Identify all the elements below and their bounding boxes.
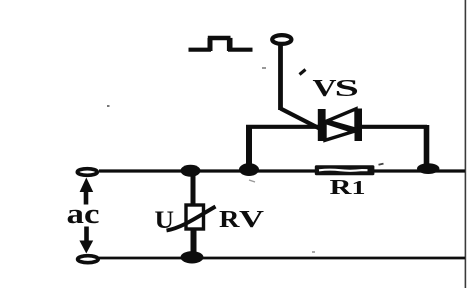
scan border right edge [465,0,467,288]
triac VS lower triangle [325,122,354,140]
node junction D4 (varistor bottom) [181,251,204,263]
triac VS left bar [318,109,326,141]
wire triac right branch vertical [424,125,430,168]
resistor R1 body [315,165,375,175]
node junction D3 (right) [417,163,439,174]
wire varistor bottom lead [191,228,197,258]
varistor RV body [186,205,204,229]
arrow down (ac) [84,227,89,242]
speck 5 [249,180,255,182]
wire triac left branch vertical [246,128,252,170]
svg-text:R: R [219,207,240,233]
triac VS right bar [355,109,363,142]
svg-text:ac: ac [67,199,100,230]
terminal (ac top) [77,169,97,176]
speck 1 [107,105,110,107]
pulse trigger symbol baseline left [189,48,212,52]
resistor R1 inner white streak [319,170,368,171]
svg-text:1: 1 [352,177,366,199]
wire top rail [99,169,465,172]
gate terminal circle [272,35,291,44]
pulse falling edge [227,38,233,51]
speck 4 [312,251,315,253]
wire bottom rail [99,257,465,260]
wire gate diagonal [281,109,321,130]
wire triac branch horizontal [246,125,427,129]
speck 2 [262,67,266,69]
node junction D1 (varistor top) [181,165,201,177]
speck 3 [379,164,384,165]
triac VS upper triangle [327,109,356,130]
wire varistor top lead [191,171,196,206]
arrow up (ac) [84,191,89,205]
svg-text:R: R [330,175,353,199]
pulse baseline right [228,48,253,52]
pulse top [208,36,231,41]
svg-text:V: V [239,207,265,233]
terminal (ac bottom) [78,256,99,263]
pulse rising edge [208,38,213,51]
svg-text:U: U [155,207,175,234]
svg-text:S: S [335,76,360,102]
tick mark near VS [300,70,306,75]
wire gate vertical [278,45,283,110]
varistor diagonal stroke [167,207,216,231]
node junction D2 (triac left branch) [239,163,259,176]
